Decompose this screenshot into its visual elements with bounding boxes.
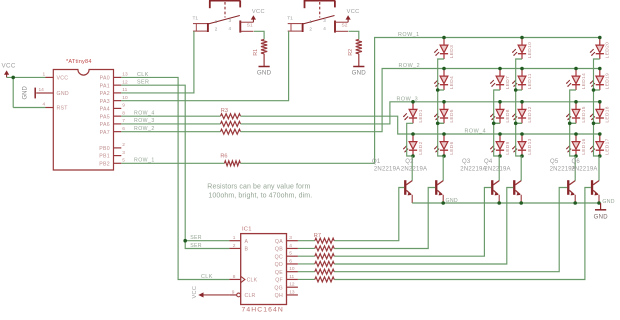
svg-text:SER: SER [190,243,202,249]
wire column 4 cathode bus [516,59,522,156]
wire ROW_2 from PA7 [121,131,220,133]
wire net ROW_1 feed and row bus [240,38,599,164]
svg-text:4: 4 [43,102,46,108]
svg-text:LED2: LED2 [418,141,424,154]
IC1 left pins A B CLK CLR [229,235,257,299]
wire button S1 to PA2 [121,31,194,93]
svg-text:VCC: VCC [2,63,16,70]
svg-text:PA1: PA1 [100,83,110,89]
svg-text:PB2: PB2 [99,161,110,167]
svg-text:9: 9 [232,289,235,295]
wire base Q6 to R7 output [334,188,591,280]
svg-text:1: 1 [43,72,46,78]
resistor R1 [253,39,267,55]
LED LED6 [434,134,455,156]
LED LED9 [490,134,511,156]
svg-text:PA3: PA3 [100,99,110,105]
svg-text:2N2219A: 2N2219A [571,167,597,173]
LED LED18 [590,102,611,124]
resistor R3 element 1 (ROW_4) [221,114,241,119]
svg-text:LED5: LED5 [449,109,455,122]
resistor R7 element 3 [298,254,334,259]
svg-text:14: 14 [39,87,45,93]
svg-text:R6: R6 [220,154,227,160]
svg-text:Q3: Q3 [462,159,471,165]
wire base Q5 to R7 output [334,188,567,272]
svg-text:4: 4 [229,26,232,31]
svg-text:LED13: LED13 [527,138,533,154]
svg-text:QF: QF [275,278,283,284]
svg-text:2: 2 [309,27,312,32]
wire VCC net to IC2 pins 1,4 [7,77,46,107]
svg-text:Resistors can be any value for: Resistors can be any value form [207,183,310,190]
wire column 6 cathode bus [594,59,600,156]
wire column 2 cathode bus [438,59,444,156]
svg-text:SER: SER [190,235,202,241]
transistor Q1 2N2219A [372,156,412,203]
power VCC (top left) [2,63,16,78]
LED LED3 [434,38,455,60]
svg-text:LED14: LED14 [581,73,587,89]
transistor Q4 2N2219A [484,156,521,203]
node column 4 junctions [514,36,524,158]
wire ROW_1 from PB2 [121,162,224,164]
LED LED12 [512,102,533,124]
svg-text:PA7: PA7 [100,130,110,136]
LED LED16 [566,134,587,156]
svg-text:VCC: VCC [192,286,198,299]
svg-text:2N2219A: 2N2219A [460,167,486,173]
LED LED4 [434,69,455,91]
resistor R7 element 6 [298,277,334,282]
wire base Q1 to R7 output [334,188,404,241]
power VCC (IC1 CLR) [192,286,230,299]
svg-text:LED19: LED19 [605,73,611,89]
svg-text:ROW_3: ROW_3 [397,97,419,103]
resistor R3 element 3 (ROW_2) [221,129,241,134]
svg-text:13: 13 [122,72,128,78]
svg-text:3: 3 [122,150,125,156]
svg-text:ROW_2: ROW_2 [399,63,421,69]
svg-text:2N2219A: 2N2219A [401,167,427,173]
ground GND (R2) [353,66,364,68]
svg-text:ROW_2: ROW_2 [134,126,155,132]
transistor Q3 2N2219A [460,156,499,203]
svg-text:A: A [245,239,249,245]
node column 3 junctions [492,67,502,158]
resistor R7 element 4 [298,261,334,266]
resistor R7 element 1 [298,238,334,243]
svg-text:QG: QG [274,285,283,291]
IC IC2 ATtiny84 body [53,59,113,170]
LED LED17 [590,134,611,156]
svg-text:Q4: Q4 [484,159,493,165]
svg-text:CLK: CLK [247,278,258,284]
svg-text:S1: S1 [247,23,253,29]
wire column 5 cathode bus [570,90,576,156]
svg-text:CLK: CLK [137,72,149,78]
svg-text:PA6: PA6 [100,122,110,128]
svg-text:2N2219A: 2N2219A [484,167,510,173]
wire column 3 cathode bus [494,90,500,156]
LED LED14 [566,69,587,91]
svg-text:RST: RST [57,106,69,112]
svg-text:11: 11 [122,87,127,93]
svg-text:QD: QD [275,262,283,268]
svg-text:4: 4 [289,243,292,249]
LED LED15 [566,102,587,124]
svg-text:LED4: LED4 [449,76,455,89]
LED LED1 [403,102,424,124]
svg-text:GND: GND [57,91,69,97]
node column 5 junctions [568,67,578,158]
svg-text:LED9: LED9 [505,141,511,154]
svg-text:Q6: Q6 [572,159,581,165]
LED LED2 [403,134,424,156]
resistor R7 element 2 [298,246,334,251]
svg-text:12: 12 [122,79,128,85]
LED LED19 [590,69,611,91]
svg-text:ROW_1: ROW_1 [398,32,420,38]
svg-text:GND: GND [257,70,272,77]
svg-text:PA0: PA0 [100,76,110,82]
pushbutton S2 [287,1,348,33]
svg-text:GND: GND [594,214,609,220]
svg-text:13: 13 [289,289,295,295]
svg-text:Q1: Q1 [372,159,381,165]
resistor R3 element 2 (ROW_3) [221,121,241,126]
LED LED11 [512,69,533,91]
LED LED8 [490,102,511,124]
wire net CLK (PA0 to IC1 pin8) [121,77,229,279]
svg-text:8: 8 [233,274,236,280]
svg-text:R2: R2 [348,49,354,56]
wire button S2 to PA3 [121,31,288,101]
resistor R6 (ROW_1) [224,161,240,166]
ground GND (IC2 pin 14) [23,86,46,100]
IC2 right pins PA0-PA7 PB0-PB2 [99,72,128,168]
svg-text:T1: T1 [287,15,293,21]
svg-text:CLR: CLR [245,293,256,299]
svg-text:3: 3 [289,235,292,241]
ground GND (rail) [594,203,609,220]
svg-text:QH: QH [275,293,283,299]
svg-text:Q2: Q2 [405,159,414,165]
svg-text:10: 10 [122,95,128,101]
transistor Q5 2N2219A [550,156,576,203]
LED LED7 [490,69,511,91]
svg-text:VCC: VCC [57,76,69,82]
svg-text:QE: QE [275,270,283,276]
svg-text:PA5: PA5 [100,114,110,120]
svg-text:8: 8 [122,110,125,116]
wire R1 to GND [263,54,265,67]
svg-text:2: 2 [122,142,125,148]
node SER branch [183,239,187,243]
svg-text:ROW_4: ROW_4 [134,111,155,117]
node column 6 junctions [592,36,602,158]
svg-text:ROW_3: ROW_3 [134,118,155,124]
svg-text:LED7: LED7 [505,76,511,89]
svg-text:LED17: LED17 [605,138,611,154]
svg-text:GND: GND [352,70,367,77]
transistor Q6 2N2219A [571,156,599,203]
wire base Q3 to R7 output [334,188,491,257]
svg-text:100ohm, bright, to 470ohm, dim: 100ohm, bright, to 470ohm, dim. [208,192,312,199]
svg-text:PA2: PA2 [100,91,110,97]
svg-text:2: 2 [233,243,236,249]
svg-text:LED6: LED6 [449,141,455,154]
IC1 right pins QA-QH [274,235,298,299]
svg-text:LED1: LED1 [418,109,424,122]
wire net ROW_2 feed and row bus [241,69,600,132]
svg-text:1: 1 [309,19,312,24]
svg-text:LED8: LED8 [505,109,511,122]
transistor Q2 2N2219A [401,156,443,203]
wire R2 to GND [358,54,360,67]
svg-text:9: 9 [122,103,125,109]
LED LED13 [512,134,533,156]
svg-text:LED20: LED20 [605,42,611,58]
svg-text:2N2219A: 2N2219A [374,167,400,173]
svg-text:T1: T1 [193,15,199,21]
IC2 left pins VCC GND RST [39,72,69,112]
svg-text:5: 5 [122,158,125,164]
svg-text:CLK: CLK [201,274,213,280]
svg-text:LED16: LED16 [581,138,587,154]
resistor R7 element 5 [298,269,334,274]
wire base Q4 to R7 output [334,188,513,265]
svg-text:1: 1 [215,19,218,24]
node emitter rail junctions [441,201,600,205]
svg-text:PA4: PA4 [100,107,110,113]
svg-text:QA: QA [275,239,283,245]
svg-text:3: 3 [229,18,232,23]
wire button S2 pin4 to R2 [349,31,359,39]
node VCC junction [11,76,15,80]
wire net SER (PA1 to IC1 pins A,B) [121,85,229,248]
svg-text:12: 12 [289,282,295,288]
svg-text:QC: QC [275,254,283,260]
svg-text:SER: SER [137,80,149,86]
svg-text:LED15: LED15 [581,106,587,122]
wire net ROW_4 feed and row bus [241,116,600,134]
svg-text:GND: GND [23,86,29,100]
svg-text:*ATtiny84: *ATtiny84 [66,59,92,65]
svg-text:LED3: LED3 [449,45,455,58]
svg-text:11: 11 [289,274,294,280]
wire base Q2 to R7 output [334,188,435,249]
ground GND (R1) [259,66,270,68]
svg-text:LED10: LED10 [527,42,533,58]
svg-text:5: 5 [289,251,292,257]
wire ROW_4 from PA5 [121,115,220,117]
svg-text:10: 10 [289,266,295,272]
node column 1 junctions [411,100,415,158]
svg-text:S2: S2 [342,23,348,29]
svg-text:3: 3 [323,18,326,23]
node column 2 junctions [436,36,446,158]
svg-text:7: 7 [122,118,125,124]
wire net ROW_3 feed and row bus [241,102,600,124]
wire column 1 cathode bus [407,123,413,156]
LED LED20 [590,38,611,60]
svg-text:PB1: PB1 [99,154,110,160]
svg-text:ROW_4: ROW_4 [465,129,487,135]
svg-text:74HC164N: 74HC164N [242,307,284,314]
svg-text:ROW_1: ROW_1 [134,158,155,164]
resistor R2 [348,39,362,55]
svg-text:LED11: LED11 [527,73,533,89]
svg-text:PB0: PB0 [99,146,110,152]
wire GND emitter rail [412,202,599,204]
svg-text:Q5: Q5 [550,159,559,165]
svg-text:6: 6 [122,126,125,132]
svg-text:6: 6 [289,258,292,264]
note text [207,183,312,199]
IC IC1 74HC164N body [241,226,287,313]
svg-text:R1: R1 [253,49,259,56]
svg-text:VCC: VCC [252,9,265,15]
power VCC (button S1 pin 3) [251,9,265,22]
svg-text:LED18: LED18 [605,106,611,122]
svg-text:4: 4 [323,26,326,31]
svg-text:VCC: VCC [347,9,360,15]
wire button S1 pin4 to R1 [254,31,264,39]
svg-text:2: 2 [215,27,218,32]
svg-text:B: B [245,247,249,253]
wire ROW_3 from PA6 [121,123,220,125]
svg-text:1: 1 [233,235,236,241]
LED LED5 [434,102,455,124]
svg-text:IC1: IC1 [242,226,252,232]
power VCC (button S2 pin 3) [346,9,360,22]
svg-text:GND: GND [446,198,458,204]
pushbutton S1 [193,1,254,33]
svg-text:GND: GND [602,199,614,205]
svg-text:QB: QB [275,247,283,253]
svg-text:LED12: LED12 [527,106,533,122]
LED LED10 [512,38,533,60]
